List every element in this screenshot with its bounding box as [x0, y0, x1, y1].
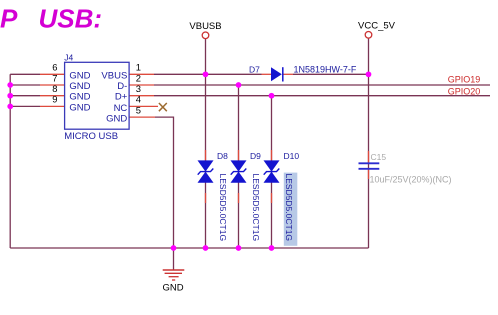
- diode D7: [271, 67, 283, 81]
- pin stub D10 bottom: [271, 193, 273, 203]
- wire pin8 row: [10, 95, 40, 97]
- pin stub J4 pin3: [129, 95, 154, 97]
- svg-text:1N5819HW-7-F: 1N5819HW-7-F: [294, 65, 357, 75]
- svg-text:MICRO USB: MICRO USB: [64, 131, 118, 142]
- svg-text:GND: GND: [106, 114, 127, 125]
- svg-text:D10: D10: [284, 151, 300, 161]
- svg-text:J4: J4: [64, 53, 73, 63]
- wire GND symbol stub: [173, 248, 175, 270]
- junction node D8 on rail: [203, 245, 209, 251]
- svg-text:9: 9: [52, 94, 57, 105]
- junction node pin9/left bus: [7, 104, 13, 110]
- svg-text:D8: D8: [217, 151, 228, 161]
- wire pin9 row: [10, 105, 40, 107]
- pin stub J4 pin1: [129, 73, 154, 75]
- svg-text:VBUS: VBUS: [101, 70, 127, 81]
- pin stub C15 bottom: [368, 170, 370, 180]
- TVS diode D9: [231, 160, 247, 182]
- wire bottom ground rail: [10, 247, 368, 249]
- wire D7 cathode to VCC node: [293, 73, 369, 75]
- svg-text:10uF/25V(20%)(NC): 10uF/25V(20%)(NC): [370, 175, 452, 185]
- wire pin5 to GND rail: [155, 117, 174, 248]
- pin stub J4 pin4 NC: [129, 105, 158, 107]
- svg-text:VCC_5V: VCC_5V: [358, 21, 396, 32]
- wire VCC_5V column to C15 and rail: [368, 38, 370, 248]
- svg-text:NC: NC: [114, 103, 128, 114]
- junction node pin8/left bus: [7, 93, 13, 99]
- junction node pin7/left bus: [7, 82, 13, 88]
- svg-text:GND: GND: [162, 283, 183, 294]
- svg-text:2: 2: [136, 72, 141, 83]
- junction node VCC_5V/VBUS wire: [366, 71, 372, 77]
- svg-text:7: 7: [52, 72, 57, 83]
- highlight box on D10 value: [284, 173, 298, 246]
- svg-text:GND: GND: [69, 70, 90, 81]
- junction node D10/GPIO20 wire: [269, 93, 275, 99]
- svg-text:PUSB:: PUSB:: [0, 4, 102, 34]
- svg-text:LESD5D5.0CT1G: LESD5D5.0CT1G: [284, 174, 294, 242]
- pin stub D9 bottom: [238, 193, 240, 203]
- wire pin6 row: [10, 73, 40, 75]
- svg-text:LESD5D5.0CT1G: LESD5D5.0CT1G: [218, 174, 228, 242]
- junction node D9 on rail: [236, 245, 242, 251]
- svg-text:LESD5D5.0CT1G: LESD5D5.0CT1G: [251, 174, 261, 242]
- svg-text:D+: D+: [115, 92, 128, 103]
- pin stub D7 cathode: [283, 73, 293, 75]
- wire VBUSB power column: [205, 39, 207, 248]
- pin stub J4 pin6: [40, 73, 65, 75]
- svg-text:3: 3: [136, 83, 141, 94]
- svg-text:D-: D-: [117, 81, 127, 92]
- capacitor C15: [359, 163, 380, 169]
- pin stub J4 pin8: [40, 95, 65, 97]
- pin stub J4 pin5: [129, 116, 155, 118]
- pin stub J4 pin2: [129, 84, 154, 86]
- svg-text:C15: C15: [371, 152, 387, 162]
- pin stub D10 top: [271, 150, 273, 160]
- svg-text:6: 6: [52, 62, 57, 73]
- wire GPIO19 net row2: [154, 84, 490, 86]
- junction node D10 on rail: [269, 245, 275, 251]
- wire pin7 row: [10, 84, 40, 86]
- wire D9 column: [238, 85, 240, 248]
- pin stub D8 top: [205, 150, 207, 160]
- pin stub J4 pin9: [40, 105, 65, 107]
- svg-text:D9: D9: [250, 151, 261, 161]
- TVS diode D10: [264, 160, 280, 182]
- svg-text:8: 8: [52, 83, 57, 94]
- TVS diode D8: [198, 160, 214, 182]
- junction node VBUSB/VBUS wire: [203, 71, 209, 77]
- wire GPIO20 net row3: [154, 95, 490, 97]
- no-connect X on pin4: [159, 103, 167, 111]
- svg-text:GND: GND: [69, 102, 90, 113]
- svg-text:VBUSB: VBUSB: [189, 21, 221, 32]
- wire VBUS net row1: [154, 73, 262, 75]
- svg-text:5: 5: [136, 104, 141, 115]
- svg-text:GND: GND: [69, 92, 90, 103]
- power symbol VBUSB: [189, 21, 221, 38]
- pin stub C15 top: [368, 151, 370, 163]
- wire D10 column: [271, 96, 273, 248]
- junction node D9/GPIO19 wire: [236, 82, 242, 88]
- svg-text:GND: GND: [69, 81, 90, 92]
- junction node GND stub on rail: [171, 245, 177, 251]
- pin stub J4 pin7: [40, 84, 65, 86]
- pin stub D9 top: [238, 150, 240, 160]
- power symbol VCC_5V: [358, 21, 396, 38]
- svg-text:4: 4: [136, 94, 141, 105]
- svg-text:GPIO19: GPIO19: [448, 75, 481, 85]
- svg-text:1: 1: [136, 62, 141, 73]
- pin stub D7 anode: [262, 73, 272, 75]
- connector J4 body: [65, 62, 130, 129]
- ground symbol GND: [162, 270, 184, 294]
- pin stub D8 bottom: [205, 193, 207, 203]
- wire left bus vertical: [9, 74, 11, 248]
- svg-text:GPIO20: GPIO20: [448, 86, 481, 96]
- svg-text:D7: D7: [249, 64, 260, 74]
